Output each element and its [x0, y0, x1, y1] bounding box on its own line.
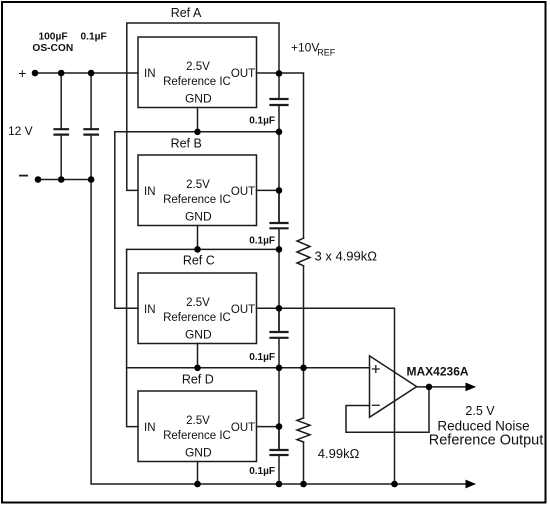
junction R2 to ground: [300, 481, 307, 488]
junction 0.1uF top: [88, 70, 95, 77]
svg-text:3 x 4.99kΩ: 3 x 4.99kΩ: [315, 248, 378, 263]
wire Ref B top edge (A GND node): [115, 131, 279, 133]
junction 100uF top: [58, 70, 65, 77]
svg-text:Ref C: Ref C: [183, 253, 215, 267]
svg-text:2.5V: 2.5V: [186, 297, 210, 309]
svg-text:Reference IC: Reference IC: [163, 312, 231, 324]
net output 2.5V text: [429, 404, 543, 449]
op-amp - symbol: [373, 404, 380, 406]
junction C GND bus: [276, 365, 283, 372]
svg-text:+: +: [18, 65, 26, 81]
wire Ref A feedthrough loop (A OUT to B IN): [127, 23, 279, 190]
junction D GND pin: [194, 481, 201, 488]
wire D OUT pin: [257, 426, 280, 428]
capacitor C1 100uF OS-CON: [55, 73, 69, 180]
wire A OUT to +10V column: [257, 73, 304, 238]
junction divider tap 2.5V: [300, 365, 307, 372]
op-amp + symbol: [373, 366, 380, 373]
net +10VREF: [291, 41, 336, 58]
svg-text:MAX4236A: MAX4236A: [407, 364, 469, 378]
wire Ref C top edge (B GND node): [127, 248, 279, 250]
svg-text:IN: IN: [144, 186, 156, 198]
capacitor C6 0.1uF across Ref D: [271, 427, 288, 484]
svg-text:2.5 V: 2.5 V: [465, 404, 495, 418]
svg-text:0.1µF: 0.1µF: [80, 31, 106, 42]
svg-text:Ref D: Ref D: [182, 372, 214, 386]
junction A GND pin: [194, 129, 201, 136]
junction bus to ground: [276, 481, 283, 488]
wire -12V rail: [38, 179, 91, 181]
svg-text:OUT: OUT: [231, 186, 255, 198]
wire R2 to ground: [303, 442, 305, 484]
svg-text:GND: GND: [185, 446, 212, 460]
junction C OUT: [276, 305, 283, 312]
junction 100uF bottom: [58, 176, 65, 183]
junction op-amp output: [426, 384, 433, 391]
junction op-amp V- to ground: [391, 481, 398, 488]
svg-text:GND: GND: [185, 210, 212, 224]
node +12V terminal: [32, 70, 39, 77]
svg-text:100µF: 100µF: [38, 31, 67, 42]
svg-text:0.1µF: 0.1µF: [249, 235, 275, 246]
wire Ref B feed (B OUT node to C IN): [115, 132, 138, 308]
svg-text:0.1µF: 0.1µF: [249, 115, 275, 126]
U-C pin and value labels: [144, 297, 255, 342]
svg-text:2.5V: 2.5V: [186, 61, 210, 73]
svg-text:Ref B: Ref B: [171, 136, 202, 150]
wire D GND pin: [197, 462, 199, 485]
svg-text:OUT: OUT: [231, 304, 255, 316]
svg-text:IN: IN: [144, 304, 156, 316]
svg-text:2.5V: 2.5V: [186, 179, 210, 191]
resistor R1 3 x 4.99k: [297, 238, 310, 266]
junction B GND pin: [194, 246, 201, 253]
wire B OUT pin: [257, 189, 280, 191]
reference IC U-D box: [138, 391, 257, 462]
junction 0.1uF bottom: [88, 176, 95, 183]
reference IC U-A box: [138, 37, 257, 108]
junction B OUT: [276, 187, 283, 194]
svg-text:IN: IN: [144, 68, 156, 80]
svg-text:OUT: OUT: [231, 422, 255, 434]
svg-text:GND: GND: [185, 92, 212, 106]
capacitor C4 0.1uF across Ref B: [271, 190, 288, 331]
node -12V terminal: [35, 176, 42, 183]
svg-text:0.1µF: 0.1µF: [249, 466, 275, 477]
U-A pin and value labels: [144, 61, 255, 106]
resistor R2 4.99k: [297, 418, 310, 442]
junction D OUT: [276, 423, 283, 430]
wire ground drop and bottom ground rail: [91, 180, 467, 485]
wire 2.5V node line (Ref D top edge to op-amp +input): [127, 367, 370, 369]
svg-text:GND: GND: [185, 328, 212, 342]
reference IC U-C box: [138, 273, 257, 344]
U-B pin and value labels: [144, 179, 255, 224]
svg-text:Reference IC: Reference IC: [163, 194, 231, 206]
junction A OUT +10V node: [276, 70, 283, 77]
wire feedback loop (output to -input): [346, 387, 429, 432]
svg-text:IN: IN: [144, 422, 156, 434]
arrow ground rail: [466, 480, 477, 489]
wire A GND pin: [197, 108, 199, 132]
svg-text:12 V: 12 V: [8, 124, 33, 138]
wire Ref C feed (C OUT node to D IN): [127, 249, 138, 426]
reference IC U-B box: [138, 155, 257, 226]
svg-text:Reference IC: Reference IC: [163, 76, 231, 88]
capacitor C2 0.1uF input: [84, 73, 98, 180]
arrow output: [466, 383, 477, 392]
svg-text:+10V: +10V: [291, 41, 319, 55]
svg-text:2.5V: 2.5V: [186, 415, 210, 427]
battery minus sign: [20, 175, 27, 177]
junction A GND bus: [276, 129, 283, 136]
wire divider middle: [303, 266, 305, 418]
wire op-amp output: [417, 386, 467, 388]
svg-text:OS-CON: OS-CON: [32, 43, 73, 54]
svg-text:0.1µF: 0.1µF: [249, 352, 275, 363]
capacitor C3 0.1uF across Ref A: [271, 73, 288, 222]
svg-text:Ref A: Ref A: [171, 6, 202, 20]
wire C GND pin: [197, 344, 199, 368]
junction B GND bus: [276, 246, 283, 253]
svg-text:REF: REF: [317, 48, 336, 58]
svg-text:Reference IC: Reference IC: [163, 430, 231, 442]
op-amp U1 triangle: [370, 356, 417, 417]
svg-text:Reference Output: Reference Output: [429, 433, 543, 449]
capacitor C5 0.1uF across Ref C: [271, 308, 288, 449]
wire +12V rail: [35, 72, 138, 74]
U-D pin and value labels: [144, 415, 255, 460]
junction C GND pin: [194, 365, 201, 372]
wire B GND pin: [197, 226, 199, 250]
svg-text:Reduced Noise: Reduced Noise: [437, 419, 529, 434]
svg-text:4.99kΩ: 4.99kΩ: [318, 446, 360, 461]
svg-text:OUT: OUT: [231, 68, 255, 80]
wire C OUT pin and op-amp V+ supply line: [257, 308, 395, 484]
